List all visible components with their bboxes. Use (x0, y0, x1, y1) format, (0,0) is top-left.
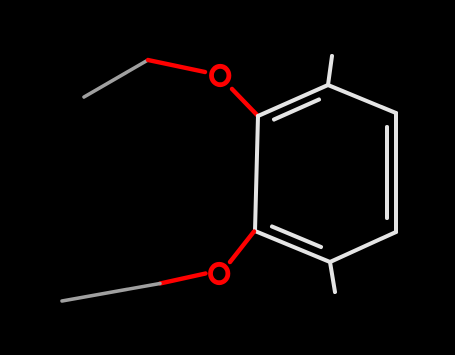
wire ring edge C1-C2 (258, 85, 328, 116)
wire ring edge C3-C4 (394, 113, 398, 232)
wire inner aromatic line parallel C3-C4 (385, 127, 389, 218)
wire methyl stub at C5 (330, 262, 335, 292)
wire CH2a-O1 bond (red, to top oxygen) (148, 60, 205, 72)
wire CH2b-CH3b bond (bottom-left ethyl terminal) (62, 284, 160, 302)
wire C6-O2 bond (red, ring to bottom oxygen) (230, 232, 254, 263)
wire ring edge C6-C1 (255, 116, 258, 231)
wire methyl stub at C2 (328, 56, 332, 85)
node O2 (bottom oxygen label) (211, 264, 228, 282)
wire inner aromatic line parallel C1-C2 (274, 100, 319, 120)
wire O2-CH2b bond (red, bottom ethyl) (160, 274, 206, 284)
wire O1-C1 bond (red, oxygen to ring) (232, 89, 258, 116)
node O1 (top oxygen label) (212, 66, 229, 84)
wire ring edge C5-C6 (255, 231, 330, 262)
wire ring edge C4-C5 (330, 232, 396, 262)
wire CH3a-CH2a bond (top-left ethyl terminal) (84, 60, 148, 97)
wire inner aromatic line parallel C5-C6 (272, 227, 321, 248)
wire ring edge C2-C3 (328, 85, 396, 113)
